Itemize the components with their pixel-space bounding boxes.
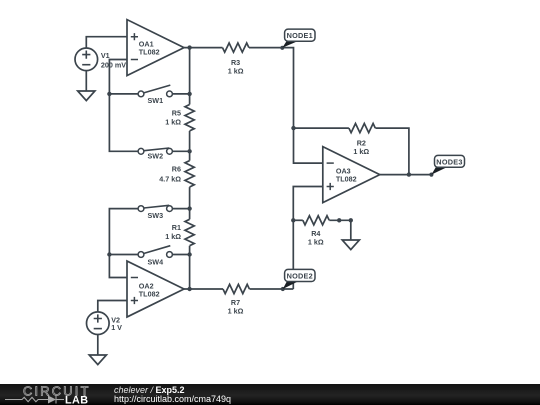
wire V2 bottom to ground — [97, 334, 99, 355]
resistor R4 — [303, 216, 329, 225]
wire R4 to ground tap — [329, 220, 351, 240]
svg-text:SW1: SW1 — [148, 96, 164, 105]
wire SW4 right to bus — [172, 254, 189, 256]
wire bus R1 to OA2 output — [189, 246, 191, 289]
svg-text:1 kΩ: 1 kΩ — [228, 66, 244, 75]
junction R2 output — [407, 172, 411, 176]
junction R4 left — [291, 218, 295, 222]
svg-text:LAB: LAB — [65, 394, 88, 405]
svg-text:R1: R1 — [172, 223, 181, 232]
svg-text:NODE1: NODE1 — [287, 31, 313, 40]
resistor R5 — [185, 105, 194, 131]
resistor R7 — [223, 284, 249, 293]
junction SW1 left — [107, 92, 111, 96]
switch SW3 — [138, 205, 172, 211]
wire R7 to NODE2 corner — [250, 288, 294, 290]
voltage source V1 — [75, 48, 98, 71]
wire SW4 left tap — [109, 254, 138, 256]
ground below V1 — [78, 91, 95, 101]
wire OA3 output to NODE3 — [380, 174, 432, 176]
junction R4 ground tap — [349, 218, 353, 222]
switch SW2 — [138, 148, 172, 154]
svg-text:4.7 kΩ: 4.7 kΩ — [159, 174, 181, 183]
wire SW1 left tap — [109, 93, 138, 95]
svg-text:1 kΩ: 1 kΩ — [308, 237, 324, 246]
footer text — [114, 384, 231, 405]
resistor R3 — [223, 43, 249, 52]
ground at R4 — [342, 240, 359, 250]
wire R3 to NODE1 corner down to OA3 - input — [249, 48, 323, 164]
svg-text:TL082: TL082 — [139, 290, 160, 299]
svg-text:SW3: SW3 — [148, 211, 164, 220]
wire V1 bottom to ground — [85, 71, 87, 91]
svg-text:1 kΩ: 1 kΩ — [353, 147, 369, 156]
wire V1 top to OA1 + input — [86, 37, 127, 48]
junction SW4 right — [187, 252, 191, 256]
wire OA1 output to R3 lead — [184, 47, 223, 49]
junction SW2 right — [187, 149, 191, 153]
CircuitLab logo — [0, 384, 110, 405]
junction R2 branch — [291, 126, 295, 130]
op-amp OA1 — [127, 20, 184, 76]
op-amp OA3 — [323, 147, 380, 203]
wire R2 feedback branch — [294, 127, 349, 129]
svg-text:200 mV: 200 mV — [101, 60, 126, 69]
svg-text:TL082: TL082 — [139, 48, 160, 57]
junction OA1 output — [187, 45, 191, 49]
svg-text:1 kΩ: 1 kΩ — [228, 306, 244, 315]
svg-text:SW4: SW4 — [148, 258, 164, 267]
svg-text:SW2: SW2 — [148, 152, 164, 161]
node flag NODE1 — [280, 29, 315, 50]
wire R4 lead — [293, 219, 303, 221]
svg-text:NODE3: NODE3 — [436, 157, 462, 166]
svg-text:TL082: TL082 — [336, 175, 357, 184]
wire OA3 + input down to R7 line — [293, 187, 323, 290]
footer bar — [0, 384, 540, 405]
svg-text:1 kΩ: 1 kΩ — [165, 232, 181, 241]
resistor R1 — [185, 219, 194, 245]
switch SW4 — [138, 246, 172, 258]
svg-text:V1: V1 — [101, 51, 110, 60]
svg-text:1 V: 1 V — [111, 323, 122, 332]
junction R4 right — [337, 218, 341, 222]
ground below V2 — [89, 355, 106, 365]
wire SW2 right to bus — [172, 150, 189, 152]
junction SW4 left — [107, 252, 111, 256]
resistor R6 — [185, 161, 194, 187]
wire OA1 - input to left bus down to SW2 — [109, 60, 138, 152]
wire R2 to OA3 output — [375, 128, 409, 175]
node flag NODE3 — [429, 155, 464, 176]
wire bus R6 to R1 — [189, 187, 191, 219]
node flag NODE2 — [281, 269, 315, 291]
wire V2 top to OA2 + input — [98, 301, 127, 313]
resistor R2 — [349, 124, 375, 133]
junction SW3 right — [187, 206, 191, 210]
svg-text:R5: R5 — [172, 108, 181, 117]
svg-text:1 kΩ: 1 kΩ — [165, 117, 181, 126]
junction SW1 right — [187, 92, 191, 96]
wire SW3 left tap to left bus down to OA2 - input — [109, 209, 138, 278]
wire SW3 right to bus — [172, 208, 189, 210]
wire OA2 output to R7 — [184, 288, 223, 290]
switch SW1 — [138, 85, 172, 97]
svg-text:R6: R6 — [172, 165, 181, 174]
svg-text:NODE2: NODE2 — [287, 272, 313, 281]
wire bus OA1 output to R5 — [189, 48, 191, 105]
wire SW1 right to bus — [172, 93, 189, 95]
wire bus R5 to R6 — [189, 131, 191, 161]
voltage source V2 — [87, 312, 110, 335]
op-amp OA2 — [127, 261, 184, 317]
junction OA2 output — [187, 287, 191, 291]
